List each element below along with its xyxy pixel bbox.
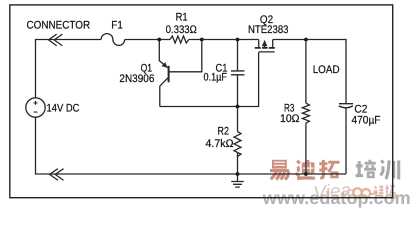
source V1 circle — [26, 98, 45, 117]
wire left rail below source to bottom rail to C2 bottom — [36, 117, 347, 174]
svg-text:2N3906: 2N3906 — [119, 73, 154, 85]
svg-text:4.7kΩ: 4.7kΩ — [206, 138, 234, 150]
transistor Q1 emitter wire — [159, 40, 167, 68]
watermark red text "easy-edatop training" — [270, 160, 399, 180]
svg-text:R1: R1 — [176, 12, 188, 24]
svg-text:0.1µF: 0.1µF — [204, 72, 228, 84]
junction dot ground node R2 — [236, 172, 240, 176]
source V1 plus minus — [34, 101, 38, 112]
transistor Q1 emitter arrowhead — [162, 62, 168, 68]
junction dot ground node R3 — [304, 172, 308, 176]
transistor Q1 base wire — [169, 40, 202, 72]
capacitor C1 bottom lead — [237, 75, 239, 106]
svg-text:NTE2383: NTE2383 — [248, 24, 289, 36]
resistor R2 top lead — [237, 107, 239, 132]
wire fuse to R1 — [125, 39, 170, 41]
capacitor C1 top lead — [237, 40, 239, 71]
svg-text:14V DC: 14V DC — [47, 103, 80, 115]
wire Q2 drain to C2 branch corner — [273, 40, 346, 104]
svg-text:CONNECTOR: CONNECTOR — [27, 20, 91, 32]
junction dot R1 left / Q1 emitter node — [157, 38, 161, 42]
resistor R2 body — [234, 131, 241, 156]
mosfet Q2 drain lead — [272, 40, 274, 48]
junction dot gate node — [236, 105, 240, 109]
svg-text:10Ω: 10Ω — [280, 113, 300, 125]
mosfet Q2 gate bar — [259, 51, 275, 53]
connector chevrons top — [49, 34, 63, 46]
wire R3 bottom lead — [305, 123, 307, 174]
junction dot R1 right / Q1 base node — [200, 38, 204, 42]
wire R1 to Q2 source — [189, 39, 259, 41]
schematic frame — [10, 5, 393, 198]
resistor R1 body — [170, 36, 189, 43]
wire R3 top lead — [305, 40, 307, 104]
svg-text:R2: R2 — [218, 126, 229, 138]
transistor Q1 collector wire — [160, 78, 168, 107]
wire top rail from left rail to fuse — [36, 40, 102, 98]
transistor Q1 base bar — [168, 66, 170, 83]
capacitor C2 lower lead — [345, 108, 347, 174]
svg-text:F1: F1 — [111, 20, 123, 32]
junction dot R3 top node — [304, 38, 308, 42]
mosfet Q2 source lead — [258, 40, 260, 48]
junction dot C1 top node — [236, 38, 240, 42]
fuse F1 — [101, 34, 125, 46]
mosfet Q2 body arrow — [262, 40, 268, 46]
watermark pink cursive overlay — [313, 180, 395, 204]
svg-text:Viea: Viea — [313, 180, 352, 204]
svg-text:0.333Ω: 0.333Ω — [166, 24, 197, 36]
wire Q1 collector to Q2 gate — [160, 52, 259, 106]
mosfet Q2 channel contact bars — [255, 47, 275, 49]
ground bars — [231, 182, 244, 188]
capacitor C2 plates — [339, 103, 353, 105]
svg-text:470µF: 470µF — [352, 115, 381, 127]
resistor R3 body — [302, 103, 309, 123]
capacitor C1 plates — [231, 71, 244, 75]
wire R2 bottom lead — [237, 153, 239, 174]
connector chevrons bottom — [50, 169, 64, 181]
svg-text:LOAD: LOAD — [313, 64, 340, 76]
ground stem — [237, 174, 239, 182]
